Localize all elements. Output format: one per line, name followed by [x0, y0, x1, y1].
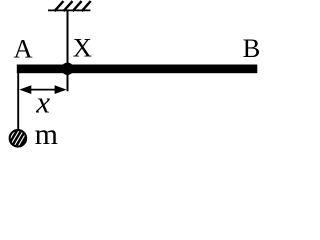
svg-text:X: X	[73, 33, 92, 63]
fixed support ceiling line	[48, 9, 90, 11]
support hatch stroke 1	[54, 1, 63, 11]
right arrowhead	[55, 85, 67, 94]
support hatch stroke 2	[64, 1, 73, 11]
support hatch stroke 3	[73, 1, 82, 11]
mass ball hatch lines	[7, 127, 29, 152]
support hatch stroke 4	[82, 1, 91, 11]
string from A down to mass	[17, 73, 19, 130]
svg-text:B: B	[243, 33, 261, 63]
dimension arrow line	[28, 89, 58, 91]
pivot dot at X	[61, 63, 73, 75]
left arrowhead	[19, 85, 31, 94]
rod / beam A-B	[17, 65, 257, 74]
svg-text:m: m	[35, 118, 58, 151]
vertical support wire at X	[67, 11, 69, 66]
svg-text:x: x	[35, 85, 50, 120]
svg-text:A: A	[14, 33, 33, 63]
mass ball	[9, 130, 26, 147]
dimension tick at X	[67, 73, 69, 91]
